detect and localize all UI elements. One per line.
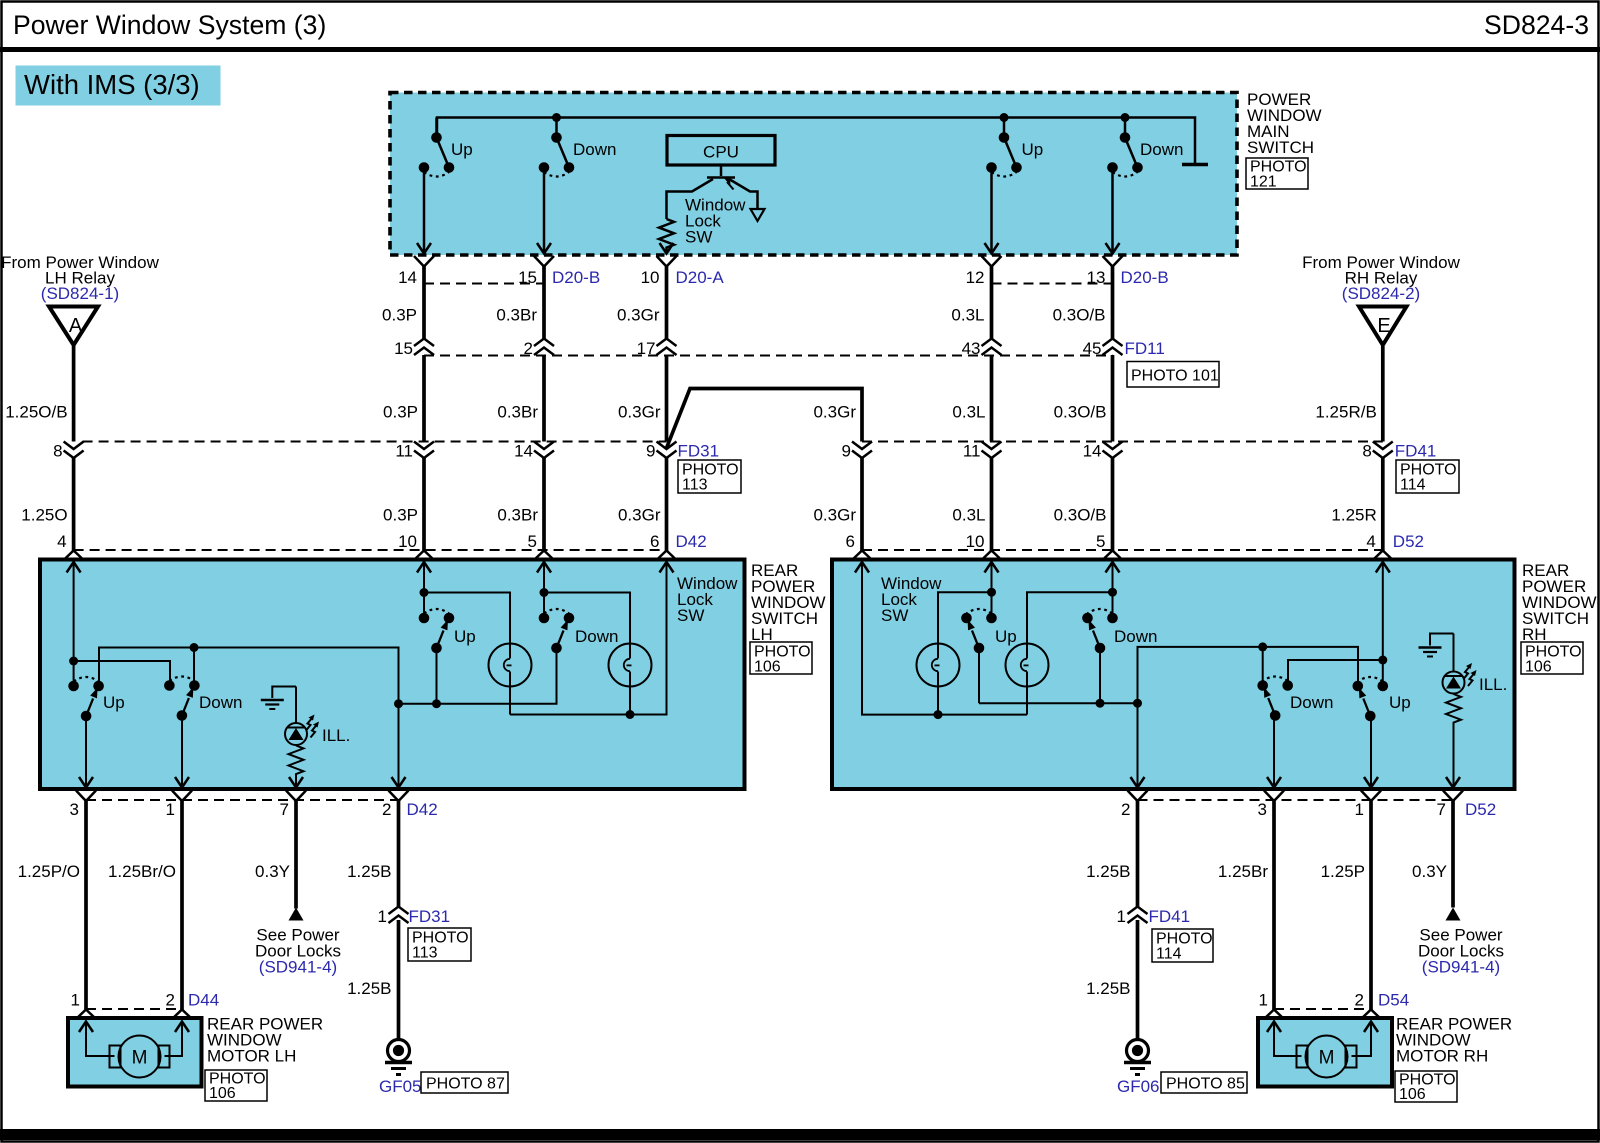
svg-text:PHOTO 101: PHOTO 101 [1131,368,1219,385]
With IMS (3/3) highlighted label [16,66,221,106]
wire Up pivot to pin 3 [85,716,87,787]
svg-text:SWITCH: SWITCH [1247,138,1314,157]
svg-text:11: 11 [395,442,413,461]
vertical from bus to switch hinge [1003,118,1006,138]
RH pin10 wire to lamp and mid switch [938,562,992,644]
svg-text:A: A [69,315,83,337]
PHOTO 114 box [1396,460,1459,493]
D42/D52 pin 10 [414,551,434,561]
motor LH [110,1036,170,1078]
svg-text:7: 7 [280,800,289,819]
pin arrowhead [417,243,431,254]
op-unit CPU box [667,136,775,166]
RH mid switch Down [1082,609,1118,653]
pin 14 chevron [414,256,434,267]
connector D54 row [1274,1008,1371,1010]
svg-text:106: 106 [1525,659,1552,676]
E relay feed wire [1381,346,1385,442]
svg-text:D20-B: D20-B [1121,268,1169,287]
svg-text:1: 1 [71,991,80,1010]
motor LH wiring [86,1022,182,1056]
svg-text:2: 2 [1355,991,1364,1010]
harness wires D20 to FD11 [422,267,426,340]
svg-text:1.25P/O: 1.25P/O [18,862,80,881]
illumination lamp 1 [489,644,532,687]
svg-text:2: 2 [1121,800,1130,819]
svg-text:Down: Down [1114,627,1157,646]
window lock SW resistor [659,219,674,253]
FD11 pin 45 [1103,339,1123,356]
svg-text:0.3Gr: 0.3Gr [617,306,660,325]
svg-text:Up: Up [1389,693,1411,712]
svg-text:GF05: GF05 [379,1077,422,1096]
PHOTO 113 box (bottom) [408,928,471,961]
chassis ground in main switch [1182,163,1208,167]
connector FD41 pin 1 [1128,907,1148,924]
svg-text:0.3L: 0.3L [952,403,985,422]
vertical from bus to switch hinge [435,118,438,138]
LH illumination ground [272,687,296,699]
svg-text:4: 4 [57,532,66,551]
D52 pin 2 [1128,791,1148,802]
svg-text:121: 121 [1250,174,1277,191]
svg-text:2: 2 [524,339,533,358]
svg-text:17: 17 [637,339,656,358]
harness wires FD31/FD41 to D42/D52 [72,458,76,551]
svg-text:FD11: FD11 [1125,339,1165,358]
svg-text:6: 6 [650,532,659,551]
svg-text:0.3P: 0.3P [383,506,418,525]
wire 0.3Y pin7 to door locks [294,801,298,909]
vertical from bus to switch hinge [1124,118,1127,138]
svg-text:MOTOR LH: MOTOR LH [207,1047,296,1066]
svg-text:Down: Down [1140,140,1183,159]
svg-text:1.25B: 1.25B [347,862,391,881]
ground GF05 [385,1040,412,1075]
svg-text:Up: Up [1022,140,1044,159]
svg-text:1: 1 [1355,800,1364,819]
main switch contact Down [1107,132,1143,176]
pin 12 chevron [982,256,1002,267]
main switch contact Down [539,132,575,176]
svg-text:10: 10 [966,532,985,551]
svg-text:D20-A: D20-A [676,268,725,287]
svg-text:LH: LH [751,625,773,644]
svg-text:1: 1 [1117,907,1126,926]
svg-text:D52: D52 [1465,800,1496,819]
wire bus to pin 2 [398,704,400,787]
svg-text:E: E [1377,315,1390,337]
svg-text:SW: SW [685,228,712,247]
pin 13 chevron [1103,256,1123,267]
svg-text:0.3Gr: 0.3Gr [618,506,661,525]
svg-text:SW: SW [881,606,908,625]
D52 pin arrow inside box [1106,562,1120,573]
FD31/FD41 pin 14 [534,442,554,459]
wire 1.25B pin2 to FD31 [397,801,401,907]
FD11 pin 43 [982,339,1002,356]
D42 pin arrow inside box [417,562,431,573]
D42/D52 pin 5 [1103,551,1123,561]
PHOTO 106 box (motor LH) [205,1070,267,1101]
D42 pin 2 [389,791,409,802]
harness wires FD11 to FD31/FD41 [422,355,426,442]
wire switch to pin [1111,172,1114,253]
svg-text:14: 14 [398,268,417,287]
svg-text:4: 4 [1366,532,1375,551]
svg-text:1.25R: 1.25R [1331,506,1376,525]
svg-text:Up: Up [103,693,125,712]
RH pin2 bus line [979,702,1138,704]
svg-text:With IMS (3/3): With IMS (3/3) [24,69,200,100]
svg-text:114: 114 [1156,946,1182,963]
svg-text:14: 14 [514,442,533,461]
svg-text:Power Window System (3): Power Window System (3) [13,10,326,40]
svg-text:PHOTO 87: PHOTO 87 [426,1076,505,1093]
A relay feed wire [72,346,76,442]
wire bus to pin 2 (RH) [1137,703,1139,787]
PHOTO 101 box [1127,362,1219,388]
RH switch Up (motor) [1353,677,1389,721]
svg-text:12: 12 [966,268,985,287]
PHOTO 106 box (motor RH) [1395,1071,1457,1102]
svg-text:106: 106 [754,659,781,676]
wire 1.25P pin1 to motor RH [1369,801,1373,1011]
PHOTO 85 box [1161,1072,1247,1093]
LH ground bus [99,648,399,704]
RH illumination ground [1430,634,1454,646]
D42/D52 pin 4 [64,551,84,561]
svg-text:Up: Up [995,627,1017,646]
D42/D52 pin 4 [1373,551,1393,561]
main internal bus wire to chassis ground [437,118,1195,164]
svg-text:0.3L: 0.3L [951,306,984,325]
0.3Gr branch to right pin 9 [667,389,863,449]
svg-text:0.3Br: 0.3Br [496,306,537,325]
motor RH [1297,1036,1357,1078]
svg-text:0.3Y: 0.3Y [255,862,290,881]
svg-text:5: 5 [1096,532,1105,551]
wire 1.25Br pin3 to motor RH [1272,801,1276,1011]
vertical from bus to switch hinge [555,118,558,138]
FD31/FD41 pin 9 [852,442,872,459]
D42 pin arrow inside box [660,562,674,573]
connector D42 bottom row [86,799,399,801]
FD31/FD41 pin 14 [1103,442,1123,459]
svg-text:43: 43 [962,339,981,358]
connector D52 bottom row [1138,799,1454,801]
off-page arrow to power door locks RH [1446,908,1461,921]
svg-text:0.3Br: 0.3Br [497,506,538,525]
connector D42/D52 row [74,549,1383,551]
svg-text:114: 114 [1400,477,1426,494]
svg-text:8: 8 [1362,442,1371,461]
FD31/FD41 pin 9 [657,442,677,459]
svg-text:RH: RH [1522,625,1547,644]
svg-text:D52: D52 [1393,532,1424,551]
open triangle arrow [751,209,765,221]
svg-text:10: 10 [398,532,417,551]
LH pin5 wire to lamp2 and mid Down switch [544,562,630,644]
illumination lamp 1 (RH) [917,644,960,687]
RH pin4 feed net [1288,562,1383,686]
D42/D52 pin 6 [852,551,872,561]
svg-text:0.3P: 0.3P [383,403,418,422]
D52 pin arrow inside box [985,562,999,573]
svg-text:Down: Down [1290,693,1333,712]
svg-text:0.3O/B: 0.3O/B [1054,403,1107,422]
LH illumination resistor [289,746,304,788]
RH pin5 wire to lamp2 and mid Down switch [1027,562,1113,644]
D20 dashed connector lines [424,283,1113,285]
CPU output transistor-style node [667,166,765,222]
svg-text:1.25B: 1.25B [1086,979,1130,998]
PHOTO 87 box [421,1072,508,1093]
svg-text:1.25R/B: 1.25R/B [1315,403,1376,422]
svg-text:45: 45 [1083,339,1102,358]
rear power window switch LH box [40,560,745,790]
svg-text:1: 1 [166,800,175,819]
svg-text:SW: SW [677,606,704,625]
svg-text:106: 106 [209,1085,236,1102]
off-page arrow to power door locks [289,908,304,921]
svg-text:GF06: GF06 [1117,1077,1160,1096]
D42 pin 7 [286,791,306,802]
connector FD11 row [424,355,1113,357]
svg-text:Up: Up [454,627,476,646]
svg-text:11: 11 [963,442,981,461]
mid Up pivot wire down [978,648,980,703]
illumination lamp 2 (RH) [1006,644,1049,687]
svg-text:9: 9 [842,442,851,461]
svg-text:Down: Down [199,693,242,712]
LH switch Down (motor) [164,677,200,721]
D52 pin 1 [1361,791,1381,802]
FD31/FD41 pin 11 [982,442,1002,459]
svg-text:3: 3 [1258,800,1267,819]
PHOTO 106 box (switch LH) [750,642,812,674]
wire Down pivot to pin 3 [1273,716,1275,787]
PHOTO 106 box (switch RH) [1521,642,1583,674]
svg-text:14: 14 [1083,442,1102,461]
motor RH wiring [1274,1022,1371,1056]
main switch contact Up [986,132,1022,176]
connector FD31/FD41 row dashes [83,441,1383,443]
lamp return wires to pin 6 (RH) [862,562,1027,715]
svg-text:SD824-3: SD824-3 [1484,10,1589,40]
svg-text:1.25B: 1.25B [347,979,391,998]
pin arrowhead [1106,243,1120,254]
pin 10 chevron [657,256,677,267]
svg-text:0.3Gr: 0.3Gr [618,403,661,422]
LH pin4 feed net [74,562,170,686]
svg-text:2: 2 [166,991,175,1010]
svg-text:15: 15 [394,339,413,358]
svg-text:Down: Down [573,140,616,159]
lamp return wires to pin 6 [510,562,667,715]
connector D44 row [86,1008,182,1010]
svg-text:ILL.: ILL. [1479,675,1507,694]
power window main switch box (dashed) [390,93,1237,256]
pin arrowhead [985,243,999,254]
PHOTO 114 box (bottom) [1152,929,1213,962]
LH illumination LED [295,687,297,724]
svg-text:D42: D42 [676,532,707,551]
svg-text:1.25P: 1.25P [1321,862,1365,881]
mid Down pivot wire down to bus [1099,648,1101,703]
D42 pin 1 [172,791,192,802]
RH illumination resistor [1446,694,1461,787]
svg-text:9: 9 [646,442,655,461]
wire 1.25B FD31 to GF05 [397,920,401,1040]
svg-text:8: 8 [53,442,62,461]
svg-text:5: 5 [528,532,537,551]
bus junction [552,113,561,122]
svg-text:10: 10 [641,268,660,287]
bus junction [1121,113,1130,122]
svg-text:7: 7 [1437,800,1446,819]
svg-text:(SD941-4): (SD941-4) [259,958,337,977]
svg-text:FD41: FD41 [1149,907,1191,926]
wire Down pivot to pin 1 [181,716,183,787]
FD31/FD41 pin 8 [64,442,84,459]
connector FD31 pin 1 [389,907,409,924]
svg-text:6: 6 [846,532,855,551]
svg-text:1: 1 [1259,991,1268,1010]
D42 pin arrow inside box [67,562,81,573]
off-page triangle A [49,307,98,346]
svg-text:(SD941-4): (SD941-4) [1422,958,1500,977]
FD31/FD41 pin 8 [1373,442,1393,459]
svg-text:FD31: FD31 [678,442,720,461]
LH mid switch Down [539,609,575,653]
wire 1.25Br/O pin1 to motor [180,801,184,1011]
RH illumination LED [1453,634,1455,672]
wire switch to pin [990,172,993,253]
rear power window motor RH box [1258,1018,1392,1087]
svg-text:0.3P: 0.3P [382,306,417,325]
svg-text:1.25O: 1.25O [21,506,67,525]
svg-text:D42: D42 [407,800,438,819]
D52 pin arrow inside box [1376,562,1390,573]
svg-text:D54: D54 [1378,991,1409,1010]
svg-text:D44: D44 [188,991,219,1010]
svg-text:ILL.: ILL. [322,726,350,745]
D52 pin 3 [1264,791,1284,802]
wire switch to pin [543,172,546,253]
FD11 pin 2 [534,339,554,356]
svg-text:(SD824-1): (SD824-1) [41,284,119,303]
svg-text:0.3Gr: 0.3Gr [813,403,856,422]
wire 1.25B FD41 to GF06 [1136,920,1140,1040]
svg-text:PHOTO 85: PHOTO 85 [1166,1076,1245,1093]
svg-text:1.25B: 1.25B [1086,862,1130,881]
svg-text:FD31: FD31 [409,907,451,926]
wire 1.25P/O pin3 to motor [84,801,88,1011]
svg-text:0.3O/B: 0.3O/B [1054,506,1107,525]
D42/D52 pin 6 [657,551,677,561]
D42/D52 pin 10 [982,551,1002,561]
PHOTO 121 box [1246,158,1308,189]
svg-text:0.3Br: 0.3Br [497,403,538,422]
D42 pin 3 [76,791,96,802]
svg-text:Up: Up [451,140,473,159]
mid Down pivot wire down to bus [399,648,557,704]
svg-text:CPU: CPU [703,143,739,162]
rear power window switch RH box [832,560,1515,790]
svg-text:1: 1 [378,907,387,926]
PHOTO 113 box [678,460,741,493]
ground GF06 [1124,1040,1151,1075]
svg-text:1.25Br: 1.25Br [1218,862,1268,881]
svg-text:FD41: FD41 [1395,442,1437,461]
rear power window motor LH box [68,1018,202,1087]
svg-text:1.25O/B: 1.25O/B [5,403,67,422]
svg-text:0.3O/B: 0.3O/B [1053,306,1106,325]
svg-text:0.3Y: 0.3Y [1412,862,1447,881]
svg-text:MOTOR RH: MOTOR RH [1396,1047,1488,1066]
svg-text:2: 2 [382,800,391,819]
illumination lamp 2 [609,644,652,687]
pin 15 chevron [534,256,554,267]
D52 pin 7 [1443,791,1463,802]
pin arrowhead [537,243,551,254]
LH pin10 wire to lamp and mid switch [424,562,510,644]
D42/D52 pin 5 [534,551,554,561]
FD31/FD41 pin 11 [414,442,434,459]
wire switch to pin [423,172,426,253]
bus junction [1000,113,1009,122]
D42 pin arrow inside box [537,562,551,573]
svg-text:0.3Gr: 0.3Gr [813,506,856,525]
svg-text:113: 113 [412,945,438,962]
RH ground bus [1138,647,1359,703]
D52 pin arrow inside box [855,562,869,573]
svg-text:113: 113 [682,477,708,494]
RH mid switch Up [961,609,997,653]
main switch contact Up [419,132,455,176]
svg-text:106: 106 [1399,1086,1426,1103]
svg-text:3: 3 [70,800,79,819]
svg-text:D20-B: D20-B [552,268,600,287]
wire Up pivot to pin 1 [1370,716,1372,787]
wire 1.25B pin2 to FD41 [1136,801,1140,907]
LH switch Up (motor) [68,677,104,721]
bottom bar [0,1129,1600,1140]
FD11 pin 15 [414,339,434,356]
svg-text:Down: Down [575,627,618,646]
off-page triangle E [1359,307,1407,346]
RH switch Down (motor) [1257,677,1293,721]
mid Up pivot wire down [436,648,438,704]
title rule [0,47,1600,52]
wire 0.3Y pin7 to door locks RH [1451,801,1455,908]
FD11 pin 17 [657,339,677,356]
svg-text:(SD824-2): (SD824-2) [1342,284,1420,303]
svg-text:0.3L: 0.3L [952,506,985,525]
svg-text:1.25Br/O: 1.25Br/O [108,862,176,881]
LH mid switch Up [419,609,455,653]
